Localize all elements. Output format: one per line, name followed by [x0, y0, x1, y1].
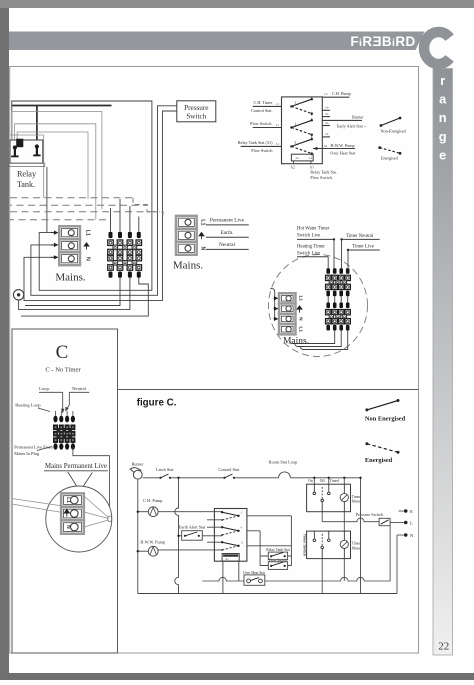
input label Relay Tank Stat (31) [238, 140, 274, 153]
content outer border [10, 67, 419, 654]
letter a [439, 92, 447, 107]
svg-text:Loop.: Loop. [39, 386, 50, 391]
svg-text:Earth.: Earth. [220, 230, 233, 236]
burner symbol [130, 461, 144, 479]
label L1 [85, 230, 91, 236]
mains label [55, 272, 86, 284]
svg-text:Heating Timer: Heating Timer [297, 244, 325, 249]
svg-text:Non Energised: Non Energised [365, 415, 406, 422]
relay feed wire 2 [15, 124, 96, 220]
svg-text:12: 12 [324, 92, 328, 96]
flow switch box [268, 558, 287, 569]
svg-text:Off: Off [320, 479, 326, 483]
figure section divider [118, 389, 419, 391]
page left margin band [0, 0, 9, 680]
figure relay contact 11 [221, 540, 244, 550]
svg-text:L1: L1 [299, 327, 304, 333]
output stub 22 [322, 112, 330, 117]
hot water timer switch live wire [297, 238, 335, 240]
timer neutral label [346, 234, 374, 239]
svg-text:C - No Timer: C - No Timer [45, 367, 81, 374]
svg-text:Pressure Switch: Pressure Switch [356, 512, 384, 517]
legend energised [365, 442, 400, 464]
svg-text:4: 4 [241, 525, 243, 529]
right gradient sidebar [433, 69, 453, 656]
figure relay box [214, 509, 247, 562]
label L1 [65, 497, 71, 503]
svg-text:Earth Alert Stat: Earth Alert Stat [179, 525, 207, 530]
timer feed drops [328, 239, 348, 268]
svg-text:N: N [200, 246, 206, 250]
letter r [440, 73, 445, 88]
neutral arrow [65, 392, 69, 411]
changeover contact 1 [290, 97, 313, 115]
svg-text:L1: L1 [200, 219, 206, 225]
relay tank label [17, 170, 37, 190]
wire from grid col2 [25, 278, 120, 306]
svg-text:A1: A1 [296, 156, 300, 160]
earth alert stat [177, 525, 222, 541]
mains permanent live label [44, 463, 108, 471]
timer connector grid upper [326, 268, 351, 296]
svg-text:21: 21 [276, 123, 280, 127]
magnifier detail circle [46, 486, 112, 552]
svg-text:Over Heat Stat: Over Heat Stat [330, 150, 356, 155]
letter g [439, 129, 447, 144]
label L1 [299, 296, 304, 302]
permanent live from mains in plug label [14, 444, 53, 456]
mains terminal block 4way [279, 293, 296, 334]
over heat stat box [243, 571, 265, 586]
svg-text:Switch Live: Switch Live [297, 233, 320, 238]
svg-text:Hot Water Timer: Hot Water Timer [297, 226, 330, 231]
terminal L [390, 521, 413, 526]
output stub 24 Early Alert Stat [322, 121, 367, 129]
svg-text:Timed: Timed [330, 479, 339, 483]
tank dashed staircase [133, 198, 163, 219]
coil down wires [223, 561, 239, 593]
relay coil block [16, 139, 23, 148]
stacked stat boxes link wires [260, 516, 291, 566]
svg-text:1: 1 [241, 510, 243, 514]
relay caption [310, 170, 337, 180]
svg-text:3: 3 [295, 141, 297, 145]
svg-text:Permanent Live: Permanent Live [210, 218, 245, 224]
svg-text:figure C.: figure C. [137, 398, 177, 409]
svg-text:N: N [410, 533, 414, 538]
svg-text:L1: L1 [65, 497, 71, 503]
svg-text:Mains Permanent Live: Mains Permanent Live [45, 463, 107, 470]
timer box 1 [307, 479, 351, 512]
arrow into mains L1 [51, 231, 59, 235]
svg-text:On: On [308, 479, 313, 483]
svg-text:Timer: Timer [352, 495, 361, 499]
detail rays [12, 496, 112, 527]
svg-text:Switch Live: Switch Live [297, 251, 320, 256]
svg-text:22: 22 [438, 641, 449, 653]
latch stat switch [156, 467, 174, 479]
timer motor 2 [340, 531, 361, 559]
relay tank stat box [266, 548, 289, 560]
grid feed wires [111, 199, 139, 232]
relay contacts box [282, 97, 323, 164]
pressure switch feed wire [322, 518, 379, 522]
svg-text:C.H. Pump: C.H. Pump [332, 91, 351, 96]
svg-text:Room Stat Loop: Room Stat Loop [269, 460, 297, 465]
label L1 lower [299, 327, 304, 333]
timer motor 1 [340, 484, 361, 512]
svg-text:N: N [85, 257, 91, 261]
wire loop B to pressure switch [31, 106, 177, 295]
changeover contact 3 [290, 137, 313, 155]
svg-text:Motor: Motor [352, 546, 362, 550]
svg-text:a: a [439, 92, 447, 107]
HW pump [137, 539, 223, 556]
relay contact left [11, 145, 18, 157]
svg-text:g: g [439, 129, 447, 144]
svg-text:N: N [65, 525, 71, 529]
svg-text:Switch: Switch [186, 113, 206, 121]
earth link circle [13, 290, 23, 300]
right main drop wire [359, 477, 361, 594]
svg-text:14: 14 [325, 106, 329, 110]
svg-text:2: 2 [295, 122, 297, 126]
svg-text:Motor: Motor [352, 499, 362, 503]
connector strip grid left [108, 232, 142, 278]
big C range logo glyph [424, 32, 450, 64]
svg-text:Timer: Timer [352, 542, 361, 546]
output stub 14 [322, 106, 330, 111]
C no-timer section box [12, 329, 118, 653]
svg-text:1: 1 [295, 101, 297, 105]
changeover contact 2 [290, 118, 313, 136]
terminal number 11 [276, 102, 280, 106]
svg-text:Pressure: Pressure [184, 104, 208, 112]
svg-text:L1: L1 [85, 230, 91, 236]
detail mains block [61, 493, 84, 534]
pointer V to detail [68, 472, 93, 493]
box1 feed and link wires [313, 477, 345, 594]
input label Flow Switch. [250, 121, 272, 126]
loop label [39, 386, 63, 392]
svg-text:Over Heat Stat: Over Heat Stat [243, 571, 265, 575]
relay input wire 31 [241, 145, 282, 147]
pressure switch symbol [356, 512, 390, 526]
svg-text:E: E [410, 509, 413, 514]
mains feed arrows [270, 288, 278, 321]
main bottom wire [138, 593, 397, 595]
svg-text:FiRƎBiRD: FiRƎBiRD [350, 34, 415, 49]
inter-grid wires [328, 296, 348, 302]
wires leaving lower grid [290, 331, 348, 350]
svg-text:A2: A2 [290, 165, 295, 169]
svg-text:C: C [56, 342, 69, 363]
output wire 12 C.H. Pump [322, 91, 350, 97]
output wire 34 H.W. Pump / Over Heat Stat [313, 143, 356, 156]
burner drop wire [137, 479, 139, 593]
output stub 32 [322, 132, 330, 137]
svg-text:e: e [439, 147, 446, 162]
relay input wire 11 [253, 105, 282, 107]
svg-text:Timer Neutral: Timer Neutral [346, 234, 374, 239]
svg-text:32: 32 [325, 132, 329, 136]
letter n [439, 110, 447, 125]
mains terminal block right [176, 216, 197, 255]
tank water dashed line 2 [10, 204, 148, 206]
detail dashed ellipse [269, 255, 368, 357]
svg-text:Tank.: Tank. [17, 180, 35, 189]
top live wire [143, 477, 361, 479]
svg-text:Relay Tank Stat (31): Relay Tank Stat (31) [238, 140, 273, 145]
plug connector cluster [53, 411, 75, 450]
secondary bottom wire [202, 526, 390, 581]
heating loop label [15, 403, 50, 412]
tank water dashed line 4 [10, 219, 108, 221]
timer live wire [347, 249, 380, 251]
timer neutral wire [340, 238, 379, 240]
firebird header band [9, 32, 425, 51]
relay input wire 21 [253, 127, 282, 129]
tank water dashed line 1 [10, 197, 133, 199]
earth wire [206, 230, 249, 237]
svg-text:Control Stat: Control Stat [218, 467, 240, 472]
tank outline rect [10, 135, 44, 198]
svg-text:Flow Switch.: Flow Switch. [310, 175, 332, 180]
C no timer subheading [45, 367, 81, 374]
mains terminal block left [59, 226, 80, 265]
plug to detail wire [73, 447, 110, 517]
label N [85, 257, 91, 261]
control stat switch [218, 467, 240, 479]
letter e [439, 147, 446, 162]
figure C label [137, 398, 177, 409]
svg-text:11: 11 [241, 540, 244, 544]
svg-text:Mains In Plug: Mains In Plug [14, 451, 40, 456]
wire from grid col4 [21, 278, 148, 316]
live drop wire with hops [175, 477, 180, 594]
arrow into mains earth [51, 243, 59, 247]
svg-text:Timer Live: Timer Live [352, 245, 374, 250]
svg-text:Non-Energised: Non-Energised [381, 129, 407, 134]
terminal number 31 [276, 142, 280, 146]
arrow into mains N [51, 255, 59, 259]
neutral wire [206, 242, 249, 249]
svg-text:Neutral: Neutral [219, 242, 236, 248]
relay exit wires [247, 516, 292, 546]
neutral label [69, 386, 89, 392]
relay coil A1 A2 [290, 154, 314, 169]
label L1 [200, 219, 206, 225]
svg-text:Mains.: Mains. [283, 337, 309, 347]
heating timer switch live label [297, 244, 325, 256]
room stat loop [269, 460, 297, 478]
svg-text:Burner: Burner [352, 114, 364, 119]
wire from earth circle to grid col3 [19, 278, 130, 310]
page bottom margin band [0, 673, 474, 680]
legend non energised [365, 399, 406, 422]
svg-text:22: 22 [325, 112, 329, 116]
relay feed wire 1 [12, 112, 102, 210]
svg-text:L: L [410, 521, 413, 526]
output wire Burner [322, 114, 364, 120]
timer switch rotated label [302, 534, 306, 556]
earth symbol [64, 509, 69, 516]
loop arrow [61, 392, 65, 413]
svg-text:r: r [440, 73, 445, 88]
svg-text:Flow Switch: Flow Switch [251, 148, 273, 153]
timer live label [352, 245, 374, 250]
timer box 2 [307, 531, 351, 559]
legend non-energised [380, 117, 407, 134]
svg-text:H.W.W. Pump: H.W.W. Pump [140, 539, 165, 544]
label N [299, 317, 304, 321]
relay tank box [8, 140, 45, 167]
svg-text:Early Alert Stat --: Early Alert Stat -- [337, 124, 367, 129]
earth symbol [199, 232, 204, 239]
svg-text:24: 24 [325, 121, 329, 125]
terminal E [399, 509, 414, 514]
svg-text:A2: A2 [309, 156, 313, 160]
svg-text:Burner: Burner [132, 461, 145, 466]
svg-text:Control Stat.: Control Stat. [251, 108, 272, 113]
relay contact right [33, 144, 40, 156]
svg-text:Energised: Energised [365, 457, 393, 464]
svg-text:Neutral: Neutral [72, 386, 86, 391]
wire loop A outer [12, 101, 152, 290]
wire loop C to pressure switch [24, 111, 177, 300]
mains label [283, 337, 309, 347]
svg-text:N: N [299, 317, 304, 321]
hot water timer switch live label [297, 226, 330, 238]
FIREBIRD logo text [350, 34, 415, 49]
relay feed wire 3 [17, 132, 88, 199]
mains label [173, 259, 204, 271]
thick live wire to relay [12, 106, 112, 145]
svg-text:C.H. Pump: C.H. Pump [143, 498, 162, 503]
timer box1 switch elements [313, 484, 330, 512]
figure relay contact 1 [221, 510, 243, 520]
CH pump [137, 498, 223, 516]
svg-text:H.W.W. Pump: H.W.W. Pump [331, 143, 355, 148]
permanent live wire [206, 218, 249, 225]
label N [65, 525, 71, 529]
C heading [56, 342, 69, 363]
figure relay left stubs [207, 520, 222, 542]
earth symbol [84, 243, 89, 250]
page top margin band [0, 0, 474, 8]
label N [200, 246, 206, 250]
svg-text:C.H. Timer: C.H. Timer [254, 100, 274, 105]
earth symbol [297, 306, 302, 313]
timer box2 switch elements [313, 531, 330, 559]
heating timer switch live wire [297, 256, 328, 258]
svg-text:A1: A1 [225, 557, 229, 561]
mains feed vertical [46, 167, 48, 233]
svg-text:n: n [439, 110, 447, 125]
pressure switch box PS [177, 101, 216, 122]
svg-text:Flow Switch.: Flow Switch. [250, 121, 272, 126]
svg-text:L1: L1 [299, 296, 304, 302]
svg-text:Permanent Live From: Permanent Live From [14, 444, 53, 449]
svg-text:Mains.: Mains. [55, 272, 86, 284]
svg-text:Energised: Energised [381, 155, 399, 160]
legend energised [378, 146, 401, 160]
svg-text:11: 11 [276, 102, 280, 106]
svg-text:Mains.: Mains. [173, 259, 204, 271]
svg-text:Heating Loop: Heating Loop [15, 403, 41, 408]
neutral return wire [396, 535, 398, 594]
input label C.H. Timer [251, 100, 273, 113]
svg-text:Latch Stat: Latch Stat [156, 467, 174, 472]
svg-text:34: 34 [324, 144, 328, 148]
svg-text:Relay: Relay [17, 170, 37, 179]
tank water dashed line 3 [10, 211, 160, 213]
figure relay coil [222, 554, 239, 562]
page number 22 [438, 641, 449, 653]
terminal number 21 [276, 123, 280, 127]
terminal N [397, 533, 414, 538]
svg-text:Timer Switch: Timer Switch [302, 534, 306, 556]
svg-text:Relay Tank Stat: Relay Tank Stat [266, 548, 289, 552]
timer connector grid lower [326, 303, 351, 331]
svg-text:31: 31 [276, 142, 280, 146]
figure relay contact 4 [221, 525, 243, 535]
